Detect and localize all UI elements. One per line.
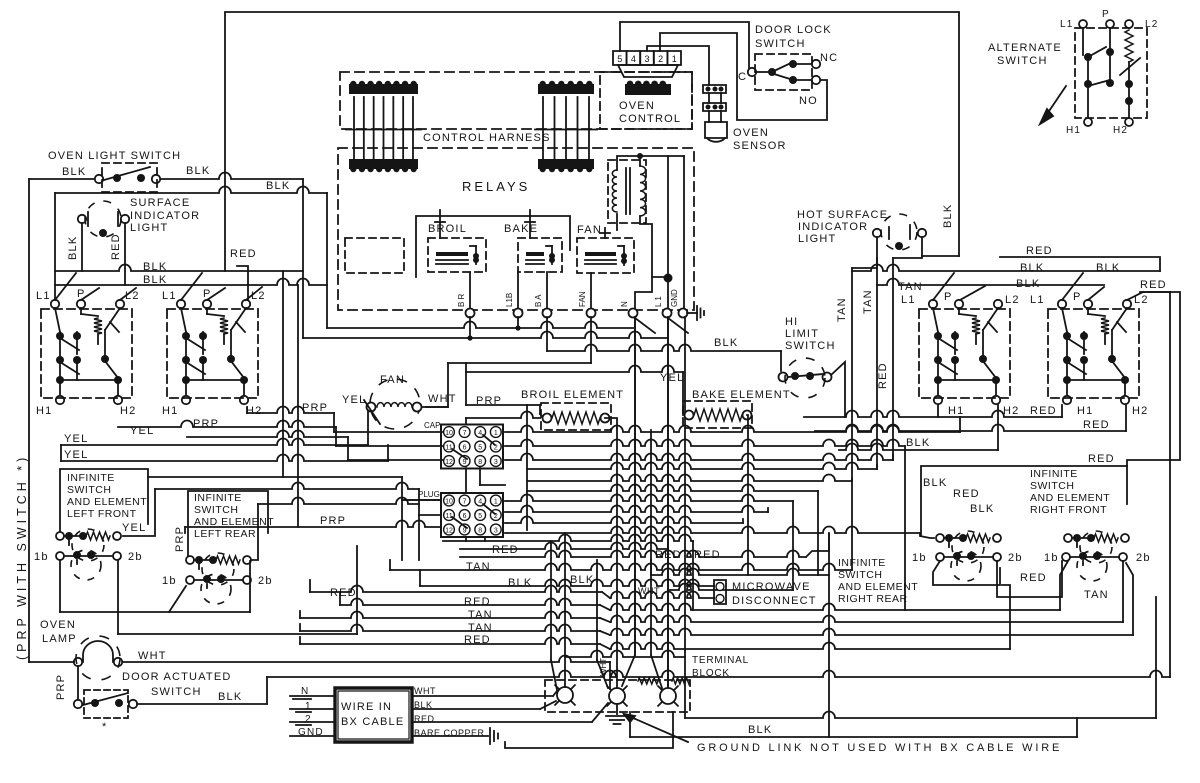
svg-text:BAKE ELEMENT: BAKE ELEMENT (692, 389, 791, 401)
label RED (464, 596, 491, 608)
svg-text:12: 12 (445, 527, 453, 534)
wire bundle x635 (622, 317, 635, 686)
wire L1 column (667, 156, 669, 308)
svg-text:PRP: PRP (320, 515, 346, 527)
bus wire y328 (327, 322, 633, 329)
label RED vertical (877, 362, 889, 389)
wire BLK right (839, 405, 998, 450)
oven light switch dashed box (102, 163, 157, 192)
label WHT (428, 393, 457, 405)
oven control dashed box (600, 72, 692, 129)
relay bake stem (525, 210, 535, 238)
labels H1 H2 (948, 405, 1019, 417)
blade P-4 (1088, 287, 1104, 300)
wire lamp left (29, 661, 74, 663)
svg-text:H1: H1 (162, 405, 178, 417)
svg-text:P: P (1073, 291, 1082, 303)
svg-text:8: 8 (478, 527, 482, 534)
label PRP (302, 402, 328, 414)
label WHT (138, 650, 167, 662)
oven sensor plug A (703, 85, 726, 93)
svg-text:BLK: BLK (186, 165, 210, 177)
blade L2-1 (120, 288, 136, 300)
wire FAN to fan motor (426, 363, 591, 407)
svg-text:DOOR ACTUATED: DOOR ACTUATED (122, 671, 232, 683)
svg-text:RELAYS: RELAYS (462, 179, 530, 194)
svg-text:H2: H2 (246, 405, 262, 417)
svg-text:7: 7 (463, 498, 467, 505)
label FAN (380, 374, 405, 386)
svg-text:1b: 1b (162, 575, 177, 587)
label INFINITE SWITCH AND ELEMENT LEFT REAR (194, 492, 274, 540)
terminal strain relief (638, 678, 690, 684)
svg-text:RED: RED (655, 549, 682, 561)
alternate switch arrow (1040, 86, 1066, 124)
wire BLK out (412, 701, 556, 709)
label TAN (1084, 589, 1109, 601)
svg-text:CONTROL: CONTROL (619, 113, 681, 125)
svg-text:1: 1 (494, 430, 498, 437)
label PRP (193, 418, 219, 430)
wire YEL long (61, 445, 388, 461)
label RED (414, 714, 435, 724)
wire RED 644 (300, 585, 1010, 649)
leg L1B (515, 317, 520, 331)
wire WHT out (412, 691, 557, 696)
svg-text:RED: RED (1088, 453, 1115, 465)
svg-text:WHT: WHT (428, 393, 457, 405)
wire H2-asm2 to CAP1 (247, 407, 334, 433)
svg-text:LEFT FRONT: LEFT FRONT (67, 508, 137, 520)
svg-text:L1: L1 (36, 290, 51, 302)
svg-text:BLK: BLK (1016, 278, 1040, 290)
broil element dashed box (541, 403, 611, 430)
wire bundle x551 (551, 541, 557, 690)
wire light left leg (852, 237, 877, 268)
svg-text:INFINITE: INFINITE (194, 492, 242, 504)
leg BR (467, 317, 472, 341)
svg-text:RED: RED (1030, 405, 1057, 417)
label TAN vertical (836, 297, 848, 322)
svg-text:RED: RED (230, 248, 257, 260)
label YEL (342, 394, 366, 406)
hi limit switch (779, 358, 832, 398)
svg-text:WHT: WHT (599, 658, 608, 676)
oven sensor plug pins (709, 93, 721, 103)
svg-text:10: 10 (445, 498, 453, 505)
blade L1-4 (1062, 273, 1083, 300)
svg-text:CONTROL HARNESS: CONTROL HARNESS (423, 132, 551, 144)
label RED (1020, 572, 1047, 584)
wire LF to PLUG2 (123, 483, 441, 560)
svg-text:PRP: PRP (193, 418, 219, 430)
label RELAYS (462, 179, 530, 194)
relay FAN (577, 238, 634, 273)
svg-text:L1B: L1B (505, 293, 514, 307)
label BLK (508, 577, 532, 589)
wire BLK to oven light switch (29, 178, 95, 180)
relay legs (470, 272, 591, 308)
label WIRE IN BX CABLE (341, 701, 404, 728)
wire BLK to hi-limit (547, 345, 781, 371)
label NO (799, 95, 818, 107)
wire right border drop (1143, 292, 1170, 677)
blade P-1 (81, 288, 99, 300)
label YEL (64, 449, 88, 461)
label GROUND LINK NOT USED WITH BX CABLE WIRE (697, 742, 1062, 754)
wire RED H-row (804, 405, 1062, 417)
wire LF box to PLUG1 (148, 477, 441, 560)
labels H1 H2 (36, 405, 136, 417)
svg-text:4: 4 (478, 430, 482, 437)
wire H2-asm1 to CAP2 (118, 421, 443, 447)
label OVEN CONTROL (619, 100, 681, 125)
svg-text:INDICATOR: INDICATOR (130, 210, 200, 222)
svg-text:LIMIT: LIMIT (785, 328, 819, 340)
door lock dashed box (755, 54, 812, 90)
svg-text:TERMINAL: TERMINAL (692, 655, 749, 666)
wire right bank top 1 (852, 265, 1160, 271)
wire bundle x617 (616, 428, 618, 688)
wire H1-asm2 to CAP3 (187, 431, 443, 460)
label TAN vertical (862, 289, 874, 314)
oven control connector (613, 51, 681, 65)
surface switch assembly 4 (1058, 300, 1131, 404)
svg-text:1b: 1b (34, 551, 49, 563)
wire RED from indicator (124, 223, 126, 285)
svg-text:INFINITE: INFINITE (67, 472, 115, 484)
svg-text:INFINITE: INFINITE (838, 557, 886, 569)
alternate switch dashed box (1075, 28, 1147, 118)
relay broil stem (435, 210, 445, 238)
oven control trapezoid (618, 65, 678, 95)
wire GND column (683, 156, 685, 308)
bake element dashed box (683, 401, 752, 428)
svg-text:SWITCH: SWITCH (785, 340, 836, 352)
svg-text:3: 3 (644, 54, 649, 64)
svg-text:OVEN LIGHT SWITCH: OVEN LIGHT SWITCH (48, 150, 181, 162)
svg-text:1b: 1b (912, 552, 927, 564)
svg-text:L1: L1 (901, 294, 916, 306)
svg-text:2b: 2b (1008, 552, 1023, 564)
svg-text:OVEN: OVEN (619, 100, 655, 112)
wire PLUG bottom exits (466, 537, 485, 541)
blade L1-3 (933, 273, 954, 300)
control harness connector right (535, 81, 597, 172)
svg-text:H1: H1 (948, 405, 964, 417)
svg-text:NC: NC (820, 52, 838, 64)
wire BARE COPPER (412, 728, 498, 744)
surface switch assembly 2 (177, 300, 250, 404)
label RED (330, 587, 357, 599)
label RED (1083, 419, 1110, 431)
label ALTERNATE SWITCH (988, 42, 1062, 67)
control harness connector left (346, 81, 421, 172)
label RED (1140, 279, 1167, 291)
wire LR to PLUG row (251, 498, 419, 560)
svg-text:YEL: YEL (64, 433, 88, 445)
terminal block dashed box (545, 680, 690, 712)
label N (301, 686, 309, 697)
wire RED 605 (340, 592, 1060, 610)
label OVEN LAMP (40, 619, 77, 645)
label CONTROL HARNESS (423, 132, 551, 144)
labels 1b 2b (34, 551, 143, 563)
label BLK vertical (942, 204, 954, 228)
wire TAN 618 (300, 611, 1123, 622)
svg-text:FAN: FAN (380, 374, 405, 386)
svg-text:H2: H2 (1132, 405, 1148, 417)
svg-text:YEL: YEL (130, 425, 154, 437)
svg-text:TAN: TAN (466, 561, 491, 573)
surface switch assembly 1 dashed box (41, 309, 132, 398)
label BROIL ELEMENT (521, 389, 624, 401)
svg-text:L 1: L 1 (654, 296, 663, 307)
labels L1 P L2 H1 H2 (1060, 9, 1159, 136)
label YEL (122, 522, 146, 534)
wire BLK long 585 (420, 570, 714, 586)
label BLK (570, 574, 594, 586)
bake element (685, 409, 752, 421)
label WHT (414, 686, 436, 696)
label DOOR ACTUATED SWITCH (122, 671, 232, 698)
wire - x55 down to L1 (54, 193, 56, 300)
svg-text:YEL: YEL (64, 449, 88, 461)
svg-text:BLK: BLK (970, 503, 994, 515)
svg-text:H1: H1 (1077, 405, 1093, 417)
infinite switch RF element B (1064, 531, 1129, 563)
label MICROWAVE DISCONNECT (732, 581, 817, 607)
wire pin5 to door lock C (620, 22, 749, 68)
leg L1 bundle (667, 317, 669, 687)
blade P-2 (207, 288, 225, 300)
labels L1 P L2 (901, 291, 1020, 306)
label RED vertical (110, 233, 122, 260)
svg-text:GROUND LINK NOT USED WITH BX C: GROUND LINK NOT USED WITH BX CABLE WIRE (697, 742, 1062, 754)
svg-text:TAN: TAN (468, 609, 493, 621)
leg FAN (590, 317, 592, 363)
wire to switch bank (55, 265, 303, 271)
svg-text:RED: RED (1083, 419, 1110, 431)
surface switch assembly 3 (929, 300, 1002, 404)
svg-text:BLK: BLK (923, 477, 947, 489)
alternate switch interior (1083, 28, 1140, 118)
svg-text:DISCONNECT: DISCONNECT (732, 595, 817, 607)
svg-text:AND ELEMENT: AND ELEMENT (838, 581, 918, 593)
svg-text:SURFACE: SURFACE (130, 197, 190, 209)
wire 2b asm down (1126, 563, 1133, 635)
infinite switch LR switch (186, 574, 251, 604)
label YEL (64, 433, 88, 445)
wire - x303 down (302, 179, 304, 338)
oven sensor plug B (703, 103, 726, 111)
ground at GND terminal (687, 306, 704, 320)
wire - main supply border (225, 12, 959, 271)
blade to LR 1b (169, 586, 186, 612)
svg-text:YEL: YEL (660, 372, 684, 384)
svg-text:LEFT REAR: LEFT REAR (194, 528, 256, 540)
svg-text:10: 10 (445, 430, 453, 437)
label TAN (898, 281, 923, 293)
svg-text:INDICATOR: INDICATOR (798, 221, 868, 233)
broil element (543, 412, 610, 424)
wire long 718 (685, 597, 1156, 718)
svg-text:SWITCH: SWITCH (997, 55, 1048, 67)
svg-text:RED: RED (694, 549, 721, 561)
surface switch assembly 1 (51, 300, 124, 404)
svg-text:PLUG: PLUG (418, 490, 440, 499)
svg-text:RED: RED (1026, 245, 1053, 257)
svg-text:2: 2 (658, 54, 663, 64)
blade at N terminal (635, 318, 655, 333)
wire CAP top entry (466, 412, 540, 425)
wire TAN link top (1060, 561, 1068, 610)
svg-text:11: 11 (445, 444, 452, 451)
svg-text:LIGHT: LIGHT (798, 233, 836, 245)
wire RED out (412, 703, 608, 722)
svg-text:SENSOR: SENSOR (733, 140, 787, 152)
svg-text:RIGHT FRONT: RIGHT FRONT (1030, 504, 1107, 516)
ground link arrow (624, 714, 688, 742)
label RED (694, 549, 721, 561)
svg-text:SWITCH: SWITCH (67, 484, 111, 496)
label BLK (748, 724, 772, 736)
svg-text:P: P (944, 291, 953, 303)
blade L1-1 (55, 273, 76, 300)
wire row533 jog to RF (920, 533, 934, 538)
wire lower feeder 590 (668, 584, 793, 591)
wire in bx cable box (335, 688, 412, 742)
bus end drops (668, 417, 960, 610)
label BLK (906, 437, 930, 449)
label SURFACE INDICATOR LIGHT (130, 197, 200, 234)
connector CAP (441, 425, 503, 469)
svg-text:RED: RED (953, 488, 980, 500)
svg-text:CAP: CAP (424, 421, 440, 430)
infinite switch right front box (921, 466, 1127, 536)
svg-text:2: 2 (305, 714, 312, 725)
label RED box top (1088, 453, 1115, 465)
svg-text:8: 8 (478, 459, 482, 466)
svg-text:N: N (620, 301, 629, 307)
svg-text:6: 6 (463, 444, 467, 451)
wire bake out (747, 415, 748, 575)
svg-text:RED: RED (464, 596, 491, 608)
relays dashed box (338, 148, 694, 310)
wire YEL to bake (466, 363, 684, 415)
infinite switch LF element (56, 529, 121, 561)
svg-text:(PRP WITH SWITCH *): (PRP WITH SWITCH *) (15, 454, 29, 660)
infinite switch RF element A (936, 531, 1001, 563)
label 1 (305, 701, 312, 712)
wire CAP row1 feed (334, 431, 443, 433)
label GND (298, 727, 324, 738)
svg-text:WIRE IN: WIRE IN (341, 701, 392, 713)
svg-text:TAN: TAN (898, 281, 923, 293)
wire x283 vertical (282, 271, 284, 477)
leg H1 asm3 (937, 405, 939, 417)
label BLK (218, 691, 242, 703)
label BLK vertical (67, 236, 79, 260)
labels H1 H2 (162, 405, 262, 417)
wire bundle x685 (684, 650, 686, 712)
transformer coils (612, 166, 645, 216)
wire long 677 (267, 671, 1170, 678)
wire to switch bank 2 (55, 279, 327, 285)
transformer top wires (617, 153, 643, 170)
svg-text:7: 7 (463, 430, 467, 437)
infinite switch LR element (186, 553, 251, 585)
label TAN (466, 561, 491, 573)
label WHT vertical (599, 658, 608, 676)
wire RF A-B link (933, 561, 1000, 585)
wire RED to L2 asm4 (1000, 257, 1160, 271)
wire RED jog (237, 266, 248, 300)
label TAN (468, 622, 493, 634)
svg-text:P: P (1102, 9, 1110, 20)
wire pin2 to door lock NO (660, 33, 827, 120)
svg-text:LAMP: LAMP (42, 633, 77, 645)
svg-text:BLK: BLK (508, 577, 532, 589)
blade L1-2 (181, 273, 202, 300)
wire top join (640, 155, 684, 157)
svg-text:BLK: BLK (942, 204, 954, 228)
label BLK (266, 180, 290, 192)
connector PLUG (441, 493, 503, 537)
wire bottom BLK (630, 712, 1077, 737)
wire TAN vertical 877 (876, 258, 878, 469)
svg-text:TAN: TAN (1084, 589, 1109, 601)
wire bundle x565 (564, 533, 566, 687)
labels 1b 2b (912, 552, 1151, 564)
svg-text:BLK: BLK (143, 261, 167, 273)
svg-text:1: 1 (494, 498, 498, 505)
svg-text:FAN: FAN (578, 291, 587, 307)
svg-text:BLK: BLK (1096, 262, 1120, 274)
label HOT SURFACE INDICATOR LIGHT (797, 209, 888, 245)
wire pin3 to sensor plug (647, 46, 709, 85)
wire N (290, 696, 335, 699)
relay BAKE (518, 238, 562, 272)
svg-text:3: 3 (494, 527, 498, 534)
labels 1b 2b (162, 575, 273, 587)
wire right border to light (922, 255, 959, 257)
label INFINITE SWITCH AND ELEMENT RIGHT FRONT (1030, 468, 1110, 516)
label BLK (186, 165, 210, 177)
label RED (230, 248, 257, 260)
label INFINITE SWITCH AND ELEMENT RIGHT REAR (838, 557, 918, 605)
leg BA (546, 317, 548, 351)
transformer dashed box (608, 160, 646, 223)
label star (102, 721, 107, 733)
label DOOR LOCK SWITCH (755, 24, 832, 50)
infinite switch RF switch A (936, 551, 1001, 581)
infinite switch LF switch (56, 550, 121, 580)
wire TAN 631 (300, 624, 1133, 635)
wire lower feeder 575 (651, 560, 829, 575)
wire right bank top 2 (877, 279, 1104, 285)
wire RED H-row2 (815, 405, 1126, 431)
oven sensor bulb (705, 111, 727, 142)
wire CAP internal jumper (452, 435, 495, 459)
terminal vertical labels (457, 289, 679, 307)
label 2 (305, 714, 312, 725)
svg-text:BLK: BLK (1020, 262, 1044, 274)
wire 1 (290, 709, 335, 712)
label BLK (143, 261, 167, 273)
wire TAN long 570 (390, 560, 852, 570)
svg-text:H2: H2 (1113, 125, 1128, 136)
